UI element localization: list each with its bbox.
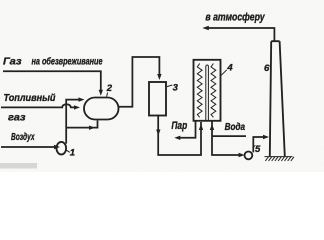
arrow into heater top bbox=[157, 74, 161, 80]
leader 5 bbox=[253, 145, 256, 147]
arrow up into boiler right bbox=[210, 124, 214, 130]
stack 6 bbox=[270, 41, 285, 156]
wire riser branch to furnace bottom bbox=[66, 121, 97, 128]
svg-text:4: 4 bbox=[226, 62, 233, 73]
leader 1 bbox=[66, 150, 70, 153]
svg-text:3: 3 bbox=[173, 82, 179, 93]
central gas tube bbox=[206, 65, 209, 121]
svg-text:в атмосферу: в атмосферу bbox=[205, 11, 265, 23]
wire stack flue to atmosphere bbox=[207, 28, 274, 41]
boiler internals bbox=[197, 64, 216, 121]
wire gas-to-furnace bbox=[3, 71, 101, 91]
svg-text:Газ: Газ bbox=[3, 57, 22, 68]
svg-text:2: 2 bbox=[106, 83, 113, 94]
wire furnace outlet to heater bbox=[119, 57, 160, 107]
arrow branch into furnace bottom bbox=[89, 126, 95, 130]
arrow steam left bbox=[174, 136, 180, 140]
arrow air upper into furnace bbox=[79, 97, 85, 101]
svg-text:Пар: Пар bbox=[171, 120, 187, 132]
left heating coil zigzag bbox=[197, 64, 202, 118]
arrow air into blower bbox=[54, 145, 60, 149]
svg-text:5: 5 bbox=[255, 144, 261, 155]
blower 1 bbox=[57, 142, 67, 155]
svg-text:6: 6 bbox=[264, 63, 270, 74]
exhauster 5 bbox=[245, 152, 253, 160]
furnace vessel 2 bbox=[84, 98, 119, 120]
arrow into furnace top bbox=[99, 90, 103, 96]
label leaders bbox=[66, 66, 272, 152]
svg-text:Топливный: Топливный bbox=[4, 93, 56, 104]
wire air to blower bbox=[1, 146, 56, 148]
svg-text:1: 1 bbox=[70, 148, 75, 159]
arrow into stack base bbox=[263, 135, 269, 139]
arrow up into boiler left bbox=[199, 124, 203, 130]
arrow heater drain down bbox=[156, 130, 160, 136]
wire blower riser bbox=[66, 100, 79, 144]
right heating coil zigzag bbox=[211, 64, 216, 118]
wire water feed bbox=[212, 135, 246, 137]
boiler vessel 4 bbox=[194, 60, 221, 121]
wire fuel gas bbox=[1, 104, 75, 107]
wire steam outlet bbox=[179, 121, 196, 138]
leader 3 bbox=[167, 85, 172, 87]
arrow fuel gas bbox=[74, 105, 80, 109]
leader 4 bbox=[221, 70, 227, 75]
svg-text:газ: газ bbox=[8, 113, 26, 124]
scan artifact bottom-left bbox=[0, 163, 37, 169]
svg-text:Воздух: Воздух bbox=[11, 132, 35, 143]
svg-text:на обезвреживание: на обезвреживание bbox=[32, 56, 103, 68]
leader 6 bbox=[269, 65, 271, 67]
arrow into exhauster bbox=[239, 153, 245, 157]
heater vessel 3 bbox=[149, 82, 166, 116]
wire exhauster to stack bbox=[253, 137, 264, 152]
wire boiler gas outlet to exhauster bbox=[212, 121, 240, 155]
svg-text:Вода: Вода bbox=[225, 122, 246, 133]
ground hatching at stack base bbox=[265, 157, 295, 161]
wire heater drain to boiler bbox=[158, 116, 201, 156]
arrow to atmosphere bbox=[202, 26, 209, 31]
leader 2 bbox=[107, 93, 108, 97]
